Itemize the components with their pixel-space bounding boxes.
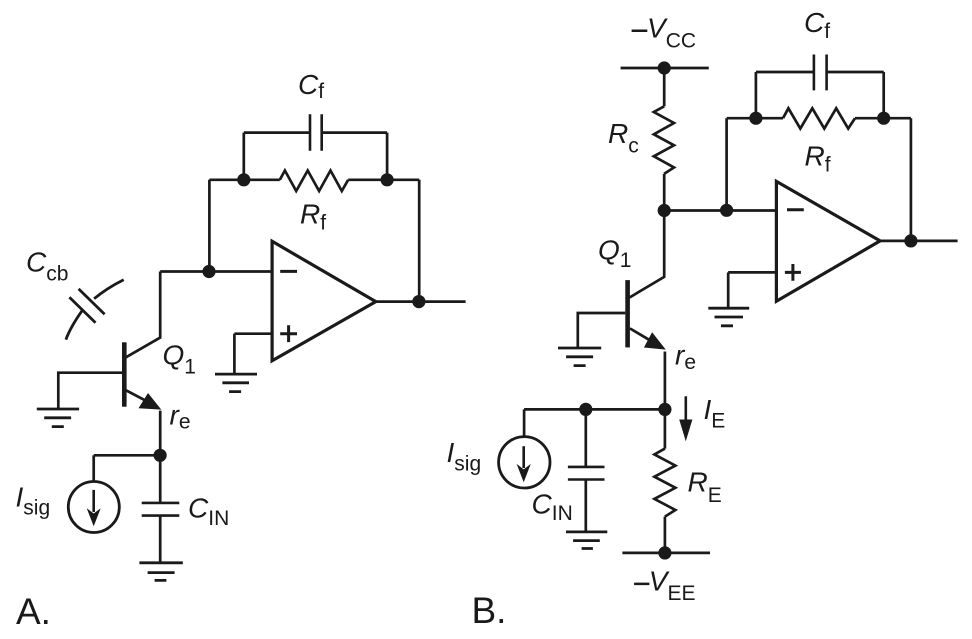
svg-text:Ccb: Ccb xyxy=(26,247,68,286)
svg-text:CIN: CIN xyxy=(532,489,573,525)
svg-text:Q1: Q1 xyxy=(163,340,196,379)
svg-text:VEE: VEE xyxy=(649,566,696,605)
svg-text:Isig: Isig xyxy=(447,437,482,476)
svg-text:VCC: VCC xyxy=(647,12,696,52)
svg-text:Rf: Rf xyxy=(300,199,326,235)
svg-text:B.: B. xyxy=(472,590,507,631)
svg-text:Rc: Rc xyxy=(608,118,639,158)
svg-text:Q1: Q1 xyxy=(598,235,631,273)
svg-text:IE: IE xyxy=(704,394,726,433)
svg-text:CIN: CIN xyxy=(188,492,229,530)
svg-text:re: re xyxy=(675,339,696,373)
svg-text:A.: A. xyxy=(16,591,51,632)
svg-text:Rf: Rf xyxy=(805,140,831,176)
svg-text:re: re xyxy=(170,399,191,433)
svg-text:Cf: Cf xyxy=(804,7,830,43)
svg-text:Cf: Cf xyxy=(298,69,324,103)
svg-text:RE: RE xyxy=(688,466,722,507)
svg-text:Isig: Isig xyxy=(16,481,51,519)
